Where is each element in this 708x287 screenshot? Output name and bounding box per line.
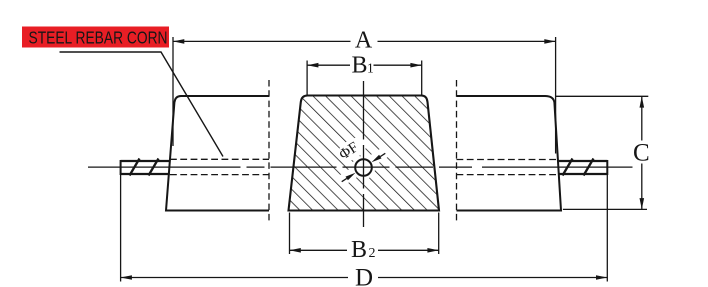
dimension D extension line left: [120, 175, 122, 282]
vertical center axis: [363, 81, 365, 227]
svg-text:C: C: [633, 140, 650, 167]
hole diameter leader lower-left arrow: [342, 173, 356, 182]
left break line (phantom): [268, 80, 270, 224]
hole diameter label PhiF (rotated): [336, 139, 361, 163]
svg-text:B: B: [351, 53, 367, 79]
label STEEL REBAR CORN: [22, 27, 169, 48]
svg-text:A: A: [355, 28, 373, 54]
left bar rib mark 2: [149, 159, 159, 176]
svg-text:B: B: [351, 237, 367, 263]
dimension C extension line bottom: [563, 208, 647, 210]
right hidden hole line bottom: [457, 174, 560, 176]
svg-text:STEEL REBAR CORN: STEEL REBAR CORN: [29, 28, 168, 48]
center section body (hatched trapezoid): [289, 96, 440, 211]
horizontal centerline: [88, 166, 633, 168]
dimension B2 extension line right: [438, 213, 440, 255]
dimension B2 extension line left: [289, 213, 291, 255]
left cone body: [166, 96, 269, 211]
svg-text:D: D: [355, 265, 373, 287]
hatch clearance halo around hole label: [333, 133, 389, 187]
dimension B2: [290, 237, 439, 263]
right cone body: [457, 96, 562, 211]
leader line from label: [60, 52, 224, 157]
dimension A: [173, 28, 556, 54]
right bar rib mark 1: [563, 159, 573, 176]
dimension A extension line left: [172, 37, 174, 146]
left hidden hole line top: [170, 158, 269, 160]
dimension A extension line right: [555, 37, 557, 154]
hole diameter leader upper-right arrow: [372, 153, 386, 162]
right hidden hole line top: [457, 159, 559, 161]
dimension D: [121, 265, 608, 287]
dimension C extension line top: [556, 95, 648, 97]
right bar rib mark 2: [584, 159, 594, 176]
left bar rib mark 1: [130, 159, 140, 176]
hole circle: [355, 159, 372, 176]
svg-text:2: 2: [369, 246, 376, 261]
dimension B1 extension line right: [421, 61, 423, 96]
right rebar bar: [558, 160, 607, 175]
left rebar bar: [121, 160, 171, 175]
left hidden hole line bottom: [170, 174, 269, 176]
right break line (phantom): [456, 80, 458, 224]
dimension D extension line right: [606, 175, 608, 282]
dimension C: [633, 96, 650, 209]
dimension B1 extension line left: [306, 61, 308, 96]
dimension B1: [307, 53, 422, 79]
svg-text:1: 1: [367, 61, 374, 76]
